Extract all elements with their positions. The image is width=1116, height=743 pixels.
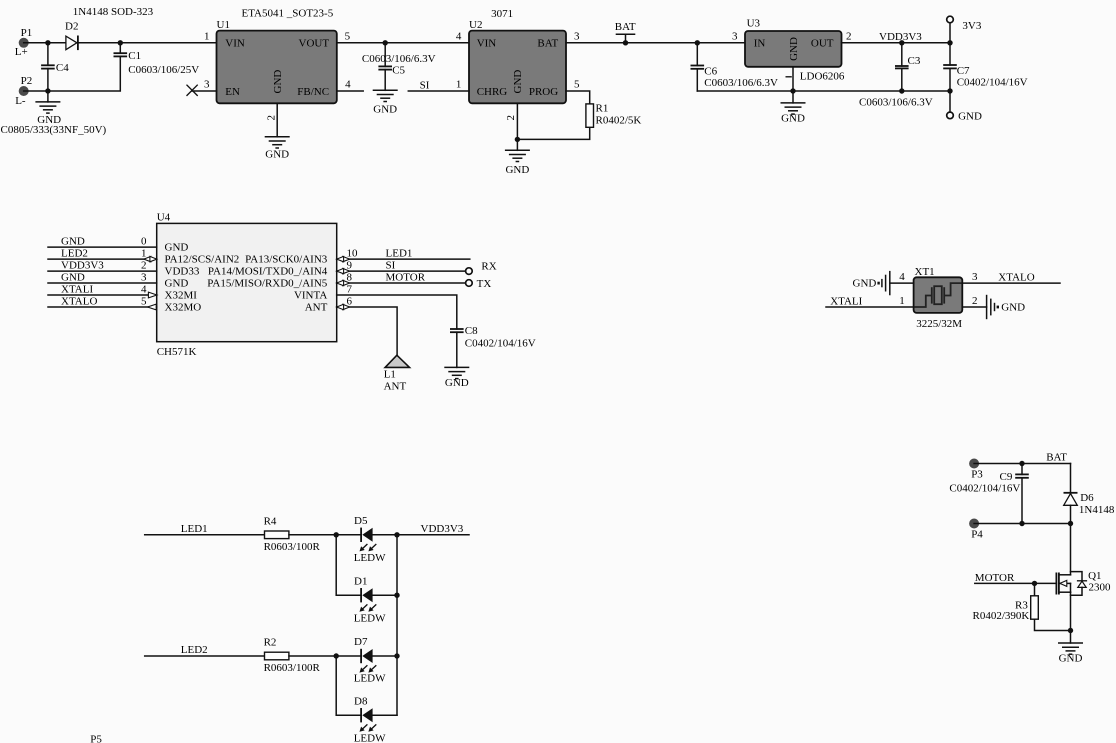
wire U4 pin 8 net MOTOR — [337, 271, 466, 285]
connector pad P2 (L-) — [15, 75, 32, 107]
wire D5 to VDD3V3 — [373, 523, 469, 535]
svg-text:PA13/SCK0/AIN3: PA13/SCK0/AIN3 — [245, 253, 328, 265]
ground symbol at P2 — [35, 91, 61, 126]
svg-text:GND: GND — [512, 70, 524, 94]
svg-text:4: 4 — [899, 271, 905, 283]
wire drain node to Q1 — [1070, 524, 1072, 575]
capacitor C9 — [949, 464, 1028, 524]
svg-text:3: 3 — [204, 79, 210, 91]
svg-text:LED1: LED1 — [181, 523, 208, 535]
svg-text:R4: R4 — [264, 516, 277, 528]
wire R4 to D5 — [289, 534, 361, 536]
junction at source/GND node — [1068, 628, 1073, 633]
junction at R4/D5 node — [334, 532, 339, 537]
ground symbol at XT1 pin 4 — [853, 271, 890, 295]
charger U2 3071 body — [469, 8, 566, 103]
svg-text:OUT: OUT — [811, 38, 834, 50]
svg-text:PA12/SCS/AIN2: PA12/SCS/AIN2 — [165, 253, 240, 265]
svg-text:IN: IN — [754, 38, 766, 50]
connector pad P5 (partial) — [90, 733, 102, 743]
wire U2 BAT pin 3 to U3 IN pin 3 — [566, 30, 745, 42]
svg-text:L+: L+ — [15, 46, 28, 58]
svg-text:2300: 2300 — [1089, 582, 1112, 594]
svg-text:GND: GND — [61, 236, 85, 248]
svg-text:1: 1 — [141, 248, 147, 260]
svg-text:7: 7 — [347, 284, 353, 296]
crystal XT1 internal symbol — [914, 283, 963, 307]
wire LED1 net to R4 — [145, 523, 265, 535]
U4 pin 5 output arrow — [148, 304, 157, 310]
junction at C3 ground — [899, 88, 904, 93]
VDD3V3 vertical rail — [396, 535, 398, 715]
svg-text:P2: P2 — [21, 75, 33, 87]
resistor R2 — [264, 637, 321, 674]
resistor R1 — [586, 102, 641, 127]
svg-text:1: 1 — [456, 79, 462, 91]
svg-text:CHRG: CHRG — [477, 86, 508, 98]
wire U4 pin 0 net GND — [48, 236, 188, 254]
connector pad P3 — [969, 459, 983, 481]
svg-text:5: 5 — [345, 30, 351, 42]
LED D5 — [354, 515, 386, 564]
svg-text:GND: GND — [445, 377, 469, 389]
junction at C9 top — [1019, 461, 1024, 466]
svg-text:VIN: VIN — [225, 38, 245, 50]
wire R3 bottom to source — [1035, 619, 1071, 630]
U3 pin labels — [754, 37, 834, 61]
svg-text:LED1: LED1 — [386, 248, 413, 260]
wire D1 to rail — [373, 594, 397, 596]
terminal GND — [947, 91, 982, 123]
svg-text:0: 0 — [141, 236, 147, 248]
svg-text:4: 4 — [456, 30, 462, 42]
svg-text:4: 4 — [141, 284, 147, 296]
svg-text:XTALI: XTALI — [61, 283, 93, 295]
wire U4 pin 5 net XTALO — [48, 295, 201, 313]
U4 right pin 7 label — [294, 284, 353, 302]
ground symbol at U1 pin 2 — [265, 137, 290, 161]
svg-text:LDO6206: LDO6206 — [800, 70, 845, 82]
svg-text:D6: D6 — [1080, 492, 1094, 504]
junction at R2/D7 node — [334, 653, 339, 658]
U4 right pin 9 label — [208, 260, 353, 278]
wire BAT down to D6 — [1070, 464, 1072, 493]
svg-text:GND: GND — [853, 277, 877, 289]
svg-text:1N4148: 1N4148 — [1079, 504, 1115, 516]
svg-text:D1: D1 — [354, 576, 367, 588]
wire P2 to ground node — [24, 90, 48, 92]
svg-text:XTALO: XTALO — [61, 295, 97, 307]
diode D2 1N4148 — [65, 21, 78, 50]
junction at C5 node — [383, 40, 388, 45]
LED D1 — [354, 576, 386, 625]
ground symbol at C5 — [373, 90, 398, 115]
svg-text:XTALI: XTALI — [830, 295, 862, 307]
svg-text:D5: D5 — [354, 515, 368, 527]
svg-text:C1: C1 — [128, 50, 141, 62]
svg-text:P1: P1 — [21, 27, 33, 39]
svg-text:GND: GND — [61, 271, 85, 283]
svg-text:3: 3 — [732, 30, 738, 42]
resistor R3 — [973, 583, 1039, 622]
junction at P2/C4/GND node — [45, 88, 50, 93]
wire U2 GND node to R1 bottom — [517, 127, 589, 139]
junction at C3 node — [899, 40, 904, 45]
ground rail C6 to C7 — [697, 90, 950, 92]
svg-text:3: 3 — [141, 272, 147, 284]
junction at U3 GND node — [790, 88, 795, 93]
wire U4 pin 3 net GND — [48, 271, 188, 289]
svg-text:ANT: ANT — [384, 381, 407, 393]
junction at D1/rail node — [394, 593, 399, 598]
net label VDD3V3 — [879, 31, 922, 43]
svg-text:C9: C9 — [1000, 471, 1013, 483]
wire U4 pin 4 net XTALI — [48, 283, 197, 301]
svg-text:BAT: BAT — [1046, 452, 1067, 464]
svg-text:GND: GND — [788, 37, 800, 61]
wire P3 to BAT corner — [974, 452, 1070, 464]
wire P1 to D2 anode — [24, 42, 66, 44]
junction at U2 GND node — [515, 137, 520, 142]
svg-text:D8: D8 — [354, 695, 368, 707]
ground symbol at C8 — [444, 367, 469, 389]
U4 pin 4 input arrow — [148, 292, 157, 298]
svg-text:PROG: PROG — [529, 86, 558, 98]
wire branch down to D1 — [336, 535, 361, 595]
svg-text:5: 5 — [141, 296, 147, 308]
svg-text:VINTA: VINTA — [294, 289, 327, 301]
U4 right pin 10 label — [245, 248, 358, 266]
junction at P1/C4 node — [45, 40, 50, 45]
capacitor C4 — [41, 43, 69, 91]
svg-text:2: 2 — [266, 115, 278, 121]
svg-text:C0402/104/16V: C0402/104/16V — [465, 338, 536, 350]
svg-text:1N4148 SOD-323: 1N4148 SOD-323 — [73, 6, 154, 18]
svg-text:3: 3 — [972, 271, 978, 283]
svg-text:BAT: BAT — [537, 38, 558, 50]
svg-text:LEDW: LEDW — [354, 673, 386, 685]
wire U4 pin 2 net VDD3V3 — [48, 260, 200, 278]
capacitor C8 — [450, 325, 536, 368]
svg-text:4: 4 — [345, 79, 351, 91]
svg-text:1: 1 — [204, 30, 210, 42]
svg-text:R0603/100R: R0603/100R — [264, 662, 321, 674]
svg-text:5: 5 — [574, 79, 580, 91]
wire branch down to D8 — [336, 656, 361, 715]
wire D2 cathode to C1 node — [78, 42, 120, 44]
ground symbol at XT1 pin 2 — [987, 295, 1026, 319]
svg-text:P4: P4 — [971, 529, 983, 541]
ground symbol at U3 — [781, 91, 806, 125]
svg-text:10: 10 — [347, 248, 359, 260]
U4 right pin 8 label — [207, 272, 352, 290]
svg-text:LEDW: LEDW — [354, 612, 386, 624]
svg-text:3: 3 — [574, 30, 580, 42]
no-connect X on U1 EN pin 3 — [187, 79, 217, 96]
svg-text:SI: SI — [386, 260, 396, 272]
terminal RX — [466, 260, 497, 274]
svg-text:C0402/104/16V: C0402/104/16V — [957, 77, 1028, 89]
svg-text:GND: GND — [165, 277, 189, 289]
transistor Q1 2300 — [1056, 570, 1111, 595]
svg-text:GND: GND — [958, 111, 982, 123]
LDO U3 body — [745, 18, 845, 83]
wire XTALI to XT1 pin 1 — [826, 295, 914, 307]
svg-text:U3: U3 — [747, 18, 761, 30]
svg-text:MOTOR: MOTOR — [386, 271, 426, 283]
op-amp U1 ETA5041 body — [217, 8, 337, 104]
svg-text:GND: GND — [265, 149, 289, 161]
svg-text:GND: GND — [165, 241, 189, 253]
svg-text:GND: GND — [505, 164, 529, 176]
svg-text:RX: RX — [481, 260, 496, 272]
svg-text:VOUT: VOUT — [299, 38, 330, 50]
svg-text:L1: L1 — [384, 369, 396, 381]
wire XT1 pin 4 to ground — [890, 271, 914, 283]
wire U2 PROG pin 5 to R1 — [566, 79, 590, 104]
connector pad P1 (L+) — [15, 27, 32, 58]
svg-text:2: 2 — [972, 295, 978, 307]
junction at C6 node — [695, 40, 700, 45]
svg-text:CH571K: CH571K — [157, 346, 197, 358]
capacitor C1 — [48, 43, 199, 91]
svg-text:X32MI: X32MI — [165, 289, 198, 301]
svg-text:FB/NC: FB/NC — [297, 86, 329, 98]
wire U4 pin 1 net LED2 — [48, 248, 239, 266]
svg-text:C0603/106/25V: C0603/106/25V — [128, 64, 199, 76]
svg-text:C8: C8 — [465, 325, 478, 337]
svg-text:GND: GND — [373, 103, 397, 115]
wire P4 to drain node — [974, 523, 1070, 525]
svg-text:VDD3V3: VDD3V3 — [421, 523, 464, 535]
svg-text:GND: GND — [1059, 653, 1083, 665]
svg-text:GND: GND — [781, 113, 805, 125]
junction at C7 ground — [947, 88, 952, 93]
U3 GND pin wire — [792, 67, 794, 91]
svg-text:D2: D2 — [65, 21, 78, 33]
wire XT1 pin 2 to ground — [962, 295, 986, 307]
svg-text:U4: U4 — [157, 212, 171, 224]
U4 right pin 6 label — [305, 296, 353, 314]
wire U1 VOUT pin 5 to U2 VIN pin 4 — [337, 30, 469, 42]
svg-text:MOTOR: MOTOR — [975, 572, 1015, 584]
junction at D6/drain node — [1068, 521, 1073, 526]
diode D6 1N4148 — [1064, 492, 1115, 523]
wire U4 pin 9 net SI — [337, 260, 466, 274]
wire MOTOR net to Q1 gate — [975, 572, 1057, 584]
svg-text:P3: P3 — [971, 469, 983, 481]
capacitor C3 — [895, 43, 921, 91]
svg-text:C3: C3 — [908, 55, 921, 67]
svg-text:BAT: BAT — [615, 21, 636, 33]
svg-text:EN: EN — [225, 86, 240, 98]
MCU U4 CH571K body — [157, 212, 337, 358]
U1 FB/NC pin 4 stub — [337, 79, 363, 91]
svg-text:2: 2 — [846, 30, 852, 42]
svg-text:R0402/5K: R0402/5K — [596, 115, 642, 127]
svg-text:C5: C5 — [392, 65, 405, 77]
terminal 3V3 — [947, 16, 982, 43]
svg-text:C7: C7 — [957, 65, 970, 77]
svg-text:3225/32M: 3225/32M — [916, 318, 962, 330]
antenna L1 — [384, 355, 410, 393]
svg-text:LEDW: LEDW — [354, 552, 386, 564]
svg-text:R1: R1 — [596, 102, 609, 114]
junction at C1 node — [118, 40, 123, 45]
svg-text:P5: P5 — [90, 733, 102, 743]
wire D8 to rail — [373, 714, 397, 716]
U1 pin labels — [225, 38, 329, 98]
svg-text:R0402/390K: R0402/390K — [973, 610, 1030, 622]
junction at D5/rail node — [394, 532, 399, 537]
terminal TX — [466, 278, 492, 290]
svg-text:GND: GND — [272, 70, 284, 94]
capacitor C7 — [943, 43, 1027, 91]
wire SI net to U2 CHRG pin 1 — [408, 79, 469, 92]
U4 pin 1 bidir arrow — [144, 256, 157, 261]
svg-text:LEDW: LEDW — [354, 732, 386, 743]
diode D2 footprint label — [73, 6, 154, 18]
resistor R4 — [264, 516, 321, 553]
wire U4 pin 10 net LED1 — [337, 248, 470, 262]
connector pad P4 — [969, 519, 983, 541]
svg-text:LED2: LED2 — [61, 248, 88, 260]
svg-text:C0603/106/6.3V: C0603/106/6.3V — [362, 53, 436, 65]
svg-text:TX: TX — [477, 278, 492, 290]
svg-text:VDD33: VDD33 — [165, 265, 200, 277]
wire Q1 source down — [1070, 592, 1072, 643]
svg-text:1: 1 — [899, 295, 905, 307]
junction at C9 bottom — [1019, 521, 1024, 526]
svg-text:ANT: ANT — [305, 301, 328, 313]
svg-text:ETA5041 _SOT23-5: ETA5041 _SOT23-5 — [242, 8, 334, 20]
svg-text:LED2: LED2 — [181, 644, 208, 656]
svg-text:VIN: VIN — [477, 38, 497, 50]
svg-text:2: 2 — [505, 115, 517, 121]
svg-text:U2: U2 — [469, 19, 482, 31]
ground symbol at Q1 source — [1058, 643, 1083, 665]
svg-text:X32MO: X32MO — [165, 301, 202, 313]
ground symbol at U2 pin 2 — [505, 139, 530, 176]
wire LED2 net to R2 — [145, 644, 265, 656]
wire D7 to rail — [373, 655, 397, 657]
junction at D7/rail node — [394, 653, 399, 658]
svg-text:C0603/106/6.3V: C0603/106/6.3V — [859, 97, 933, 109]
U2 pin labels — [477, 38, 559, 98]
svg-text:PA15/MISO/RXD0_/AIN5: PA15/MISO/RXD0_/AIN5 — [207, 277, 328, 289]
wire C1 node to U1 VIN pin 1 — [120, 30, 216, 42]
capacitor C5 — [362, 43, 436, 91]
svg-text:D7: D7 — [354, 636, 368, 648]
U1 GND pin 2 wire — [266, 103, 278, 137]
power symbol BAT — [615, 21, 636, 46]
svg-text:PA14/MOSI/TXD0_/AIN4: PA14/MOSI/TXD0_/AIN4 — [208, 265, 328, 277]
svg-text:Q1: Q1 — [1088, 570, 1101, 582]
svg-text:3V3: 3V3 — [962, 20, 981, 32]
capacitor C6 — [691, 43, 778, 91]
svg-text:R0603/100R: R0603/100R — [264, 541, 321, 553]
LED D8 — [354, 695, 386, 743]
svg-text:SI: SI — [420, 79, 430, 91]
C4 value label — [1, 124, 107, 136]
wire R2 to D7 — [289, 655, 361, 657]
wire XT1 pin 3 net XTALO — [962, 271, 1060, 283]
svg-text:C0603/106/6.3V: C0603/106/6.3V — [704, 77, 778, 89]
svg-text:VDD3V3: VDD3V3 — [61, 260, 104, 272]
svg-text:C4: C4 — [56, 62, 69, 74]
junction at C7 node — [947, 40, 952, 45]
svg-text:XT1: XT1 — [915, 266, 935, 278]
wire U3 OUT pin 2 to 3V3 node — [842, 30, 951, 42]
svg-text:XTALO: XTALO — [998, 271, 1034, 283]
svg-text:C0805/333(33NF_50V): C0805/333(33NF_50V) — [1, 124, 107, 136]
C3 value label — [859, 97, 933, 109]
svg-text:R2: R2 — [264, 637, 277, 649]
svg-text:C6: C6 — [704, 66, 717, 78]
svg-text:C0402/104/16V: C0402/104/16V — [949, 482, 1020, 494]
junction at R3 top — [1032, 581, 1037, 586]
wire U4 pin 7 VINTA to C8 — [337, 295, 457, 329]
svg-text:U1: U1 — [217, 19, 230, 31]
U2 GND pin 2 wire — [505, 103, 518, 139]
wire U4 pin 6 to antenna — [337, 304, 397, 355]
svg-text:L-: L- — [15, 95, 26, 107]
svg-text:3071: 3071 — [491, 8, 513, 20]
svg-text:2: 2 — [141, 260, 147, 272]
crystal XT1 body — [914, 266, 963, 330]
LED D7 — [354, 636, 386, 685]
svg-text:GND: GND — [1001, 302, 1025, 314]
